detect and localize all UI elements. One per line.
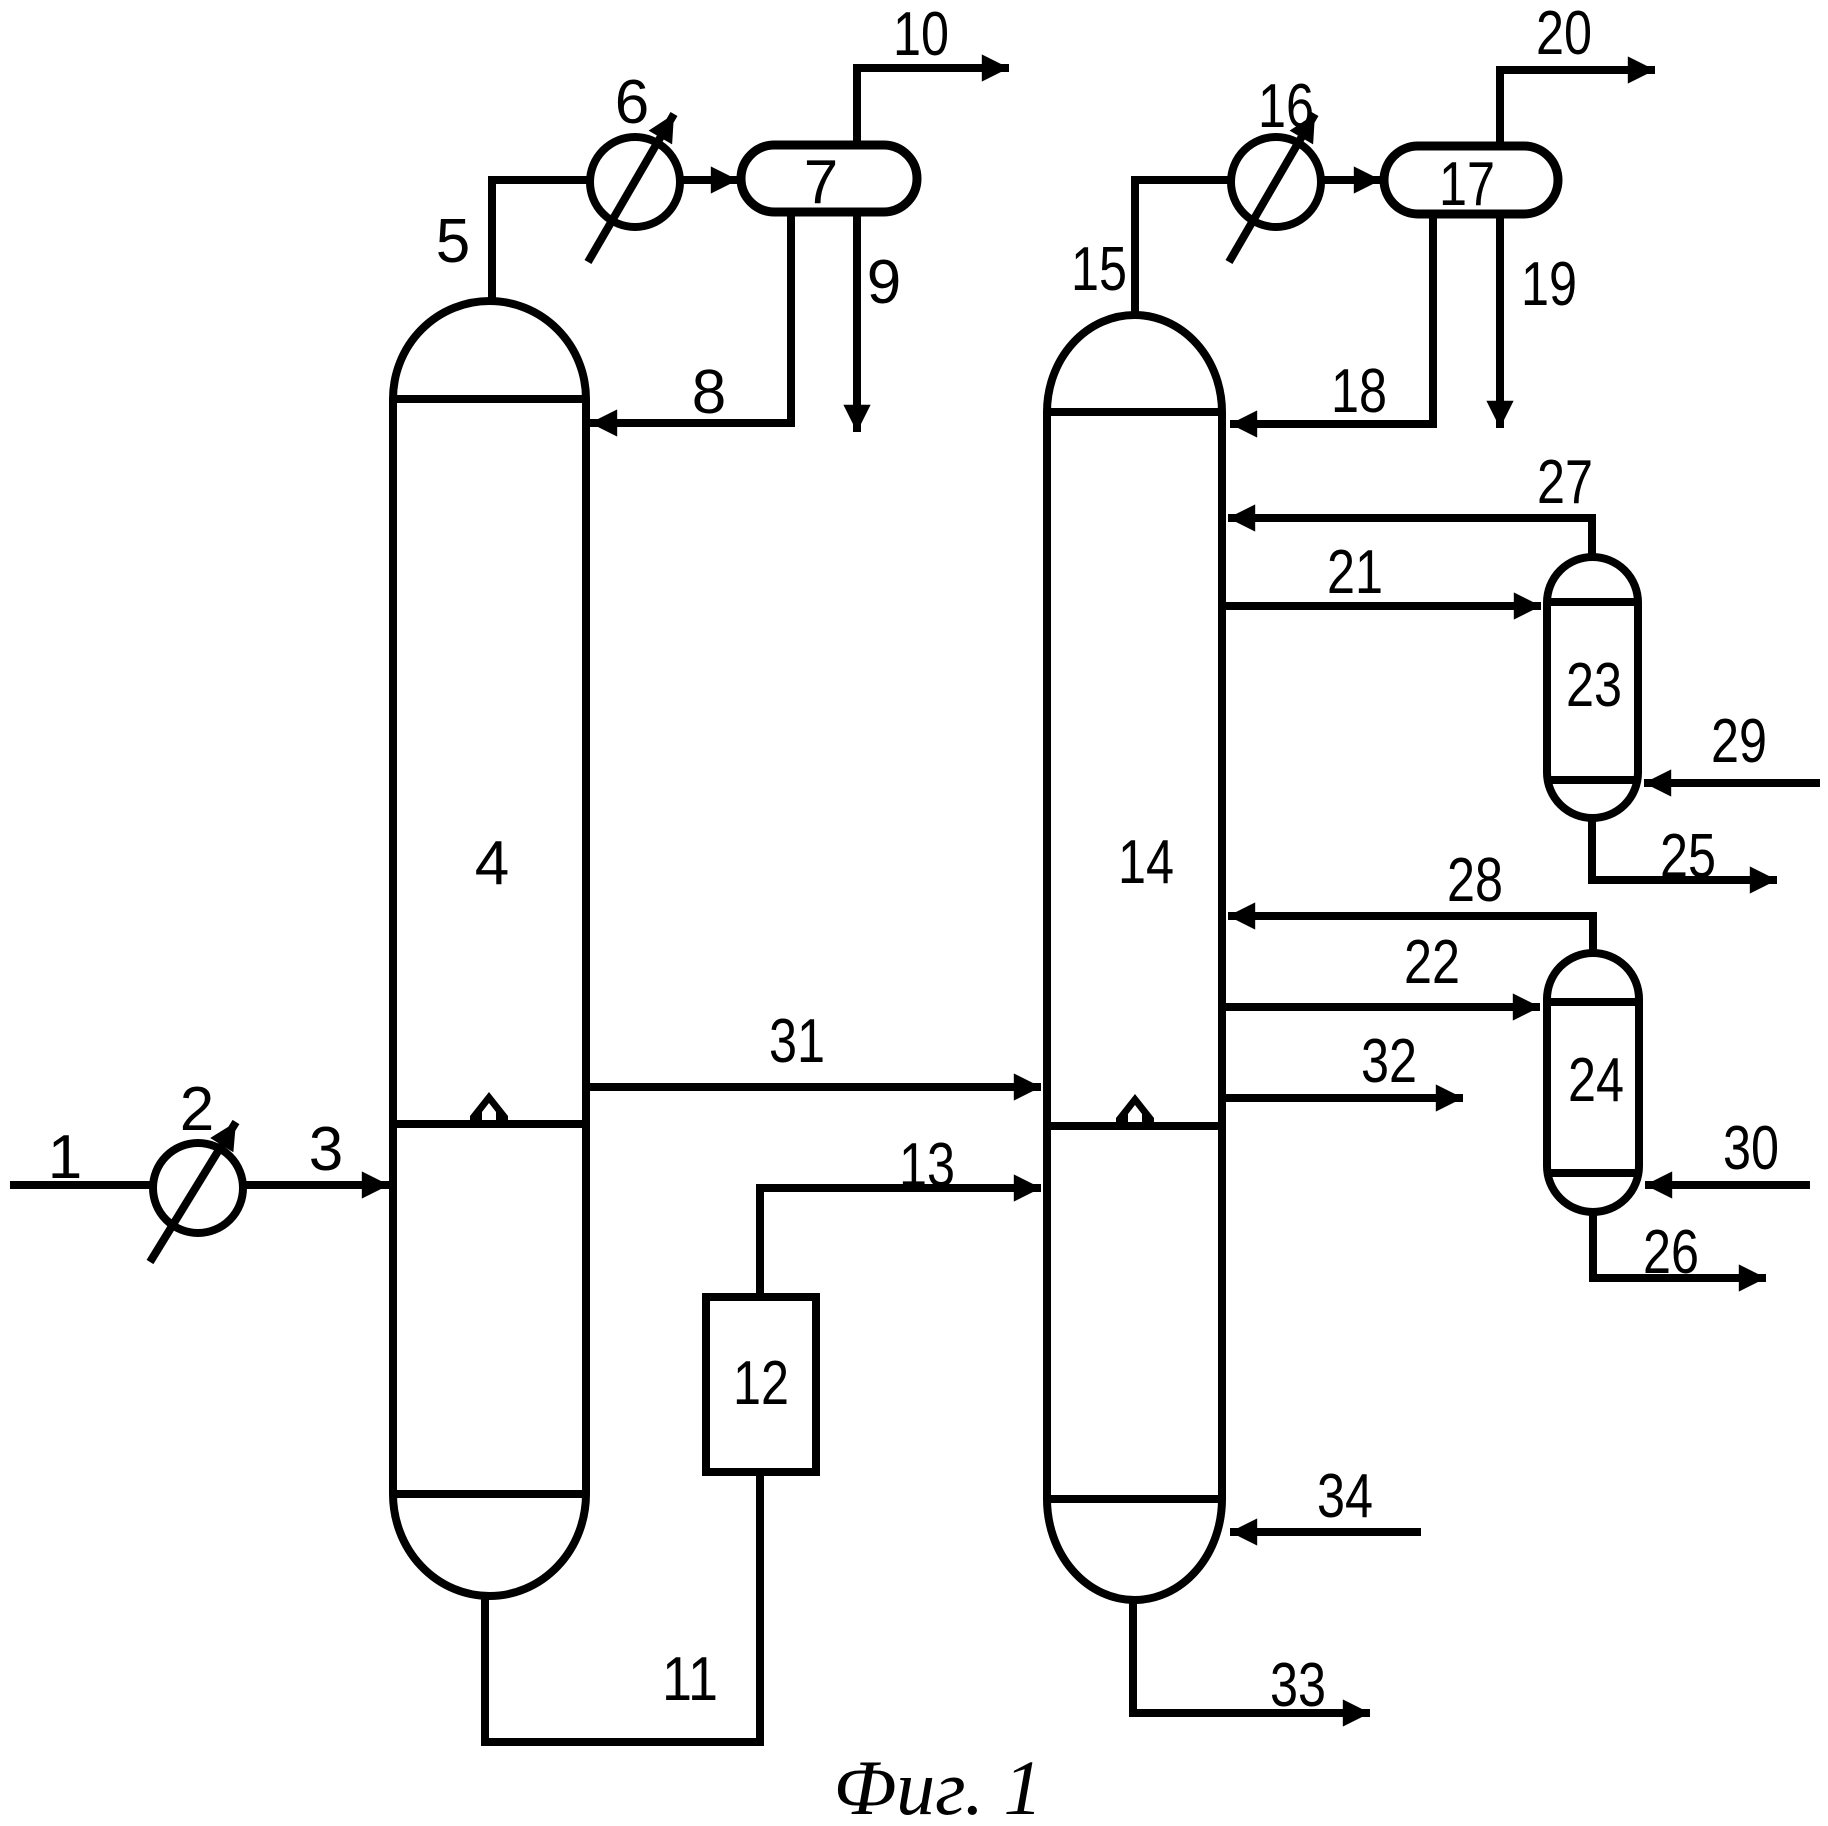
stream 1 [10,1181,152,1189]
column 14 [1047,315,1222,1600]
stream 30 [1645,1181,1810,1189]
svg-text:6: 6 [615,68,649,137]
svg-text:12: 12 [733,1349,789,1418]
stream 31 [586,1083,1041,1091]
heat exchanger 16 [1229,114,1321,262]
svg-text:2: 2 [180,1075,214,1144]
stream 32 [1222,1094,1463,1102]
stream 6 to 7 [681,176,738,184]
stream 11 [485,1474,760,1742]
stream 16 to 17 [1322,176,1381,184]
svg-text:33: 33 [1270,1651,1326,1720]
stream 20 [1500,70,1655,148]
stripper 24 [1547,953,1639,1212]
stream 19 [1496,216,1504,428]
svg-text:18: 18 [1331,357,1387,426]
feed tray arrow column 14 [1116,1094,1154,1126]
stream 21 [1222,602,1541,610]
svg-text:13: 13 [899,1131,955,1200]
svg-text:16: 16 [1258,72,1314,141]
feed tray arrow column 4 [470,1092,508,1124]
stream 25 [1592,818,1777,880]
stream 34 [1230,1528,1421,1536]
svg-text:32: 32 [1361,1027,1417,1096]
reflux drum 7 [741,145,917,212]
svg-text:19: 19 [1521,250,1577,319]
reboiler 12 [706,1297,816,1472]
svg-text:11: 11 [662,1645,718,1714]
svg-text:4: 4 [475,829,509,898]
svg-text:21: 21 [1327,538,1383,607]
heat exchanger 6 [588,114,680,262]
stream 27 [1228,518,1592,557]
feed tray line column 14 [1047,1122,1222,1130]
svg-text:29: 29 [1711,707,1767,776]
svg-text:14: 14 [1118,828,1174,897]
svg-text:22: 22 [1404,928,1460,997]
stripper 23 [1547,557,1638,818]
svg-text:20: 20 [1536,0,1592,68]
stream 15 [1135,180,1230,317]
stream 13 [760,1188,1041,1297]
svg-text:Фиг. 1: Фиг. 1 [833,1744,1042,1826]
svg-text:7: 7 [804,148,838,217]
stream 5 [492,180,589,302]
stream 22 [1222,1003,1540,1011]
svg-text:17: 17 [1439,150,1495,219]
reflux drum 17 [1384,146,1558,214]
column 4 [393,301,586,1596]
heat exchanger 2 [150,1122,243,1262]
svg-text:9: 9 [867,248,901,317]
feed tray line column 4 [393,1120,586,1128]
stream 18 [1230,216,1433,424]
svg-text:30: 30 [1723,1114,1779,1183]
svg-text:34: 34 [1317,1462,1373,1531]
stream 28 [1228,916,1593,953]
stream 10 [857,68,1009,147]
svg-text:28: 28 [1447,846,1503,915]
svg-text:31: 31 [769,1007,825,1076]
svg-text:26: 26 [1643,1218,1699,1287]
stream 8 [590,214,791,423]
svg-text:1: 1 [48,1123,82,1192]
stream 33 [1133,1600,1370,1713]
svg-text:23: 23 [1566,651,1622,720]
stream 9 [853,214,861,432]
svg-text:10: 10 [893,0,949,69]
svg-text:8: 8 [692,358,726,427]
svg-text:27: 27 [1537,448,1593,517]
stream 26 [1593,1212,1766,1278]
stream 3 [244,1181,389,1189]
svg-text:25: 25 [1660,822,1716,891]
svg-text:5: 5 [436,207,470,276]
svg-text:24: 24 [1568,1046,1624,1115]
stream 29 [1644,779,1820,787]
svg-text:3: 3 [309,1115,343,1184]
svg-text:15: 15 [1071,235,1127,304]
